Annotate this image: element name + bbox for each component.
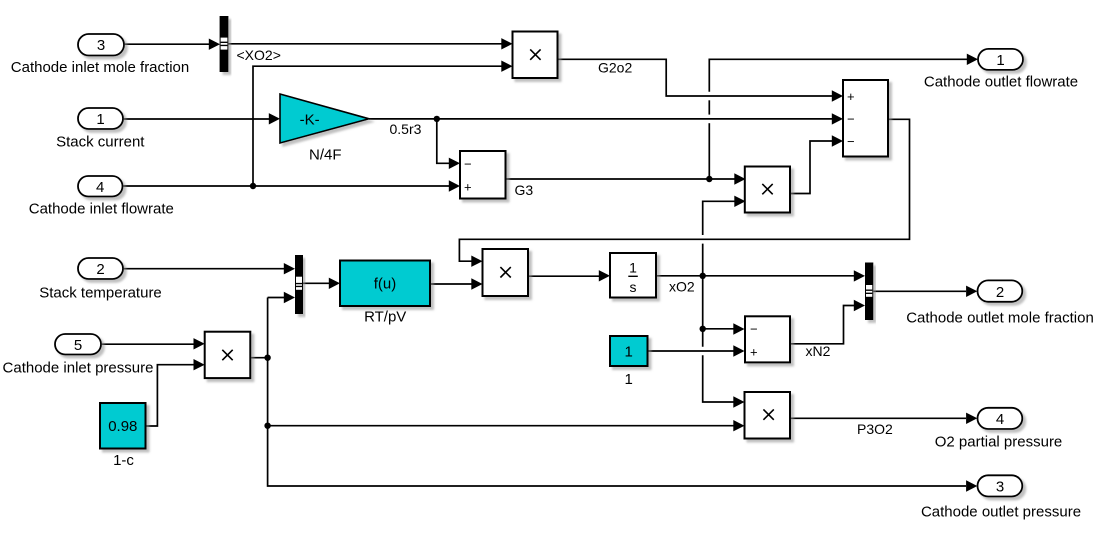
svg-text:xO2: xO2 — [669, 279, 695, 295]
svg-text:3: 3 — [996, 479, 1004, 496]
svg-text:Cathode outlet mole fraction: Cathode outlet mole fraction — [906, 310, 1094, 327]
svg-text:+: + — [750, 345, 758, 360]
svg-text:4: 4 — [996, 411, 1004, 428]
svg-text:1: 1 — [625, 371, 633, 388]
svg-text:1: 1 — [625, 343, 633, 360]
svg-text:xN2: xN2 — [806, 343, 831, 359]
svg-text:Cathode inlet pressure: Cathode inlet pressure — [3, 359, 154, 376]
svg-text:N/4F: N/4F — [309, 146, 342, 163]
svg-text:0.5r3: 0.5r3 — [390, 121, 422, 137]
svg-text:1: 1 — [629, 259, 637, 275]
svg-text:−: − — [750, 322, 758, 337]
svg-text:5: 5 — [74, 337, 82, 354]
svg-text:Cathode inlet mole fraction: Cathode inlet mole fraction — [11, 59, 189, 76]
svg-text:4: 4 — [96, 179, 104, 196]
svg-text:1: 1 — [996, 52, 1004, 69]
svg-text:-K-: -K- — [300, 111, 320, 128]
svg-text:G2o2: G2o2 — [598, 60, 632, 76]
svg-text:1: 1 — [96, 111, 104, 128]
svg-text:0.98: 0.98 — [108, 418, 137, 435]
svg-text:+: + — [464, 180, 472, 195]
svg-text:3: 3 — [97, 37, 105, 54]
svg-text:Cathode outlet pressure: Cathode outlet pressure — [921, 504, 1081, 521]
svg-text:Stack current: Stack current — [56, 133, 145, 150]
svg-text:1-c: 1-c — [113, 452, 134, 469]
svg-text:G3: G3 — [515, 182, 534, 198]
svg-text:−: − — [847, 134, 855, 149]
svg-text:Stack temperature: Stack temperature — [39, 285, 162, 302]
svg-text:O2 partial pressure: O2 partial pressure — [935, 434, 1063, 451]
svg-text:2: 2 — [96, 261, 104, 278]
svg-text:<XO2>: <XO2> — [237, 47, 281, 63]
svg-text:2: 2 — [996, 284, 1004, 301]
svg-text:P3O2: P3O2 — [857, 421, 893, 437]
svg-text:Cathode outlet flowrate: Cathode outlet flowrate — [924, 74, 1078, 91]
svg-text:f(u): f(u) — [374, 276, 397, 293]
svg-text:RT/pV: RT/pV — [364, 309, 406, 326]
svg-text:s: s — [630, 279, 637, 295]
svg-text:Cathode inlet flowrate: Cathode inlet flowrate — [29, 201, 174, 218]
svg-text:+: + — [847, 89, 855, 104]
svg-text:−: − — [847, 112, 855, 127]
svg-text:−: − — [464, 156, 472, 171]
